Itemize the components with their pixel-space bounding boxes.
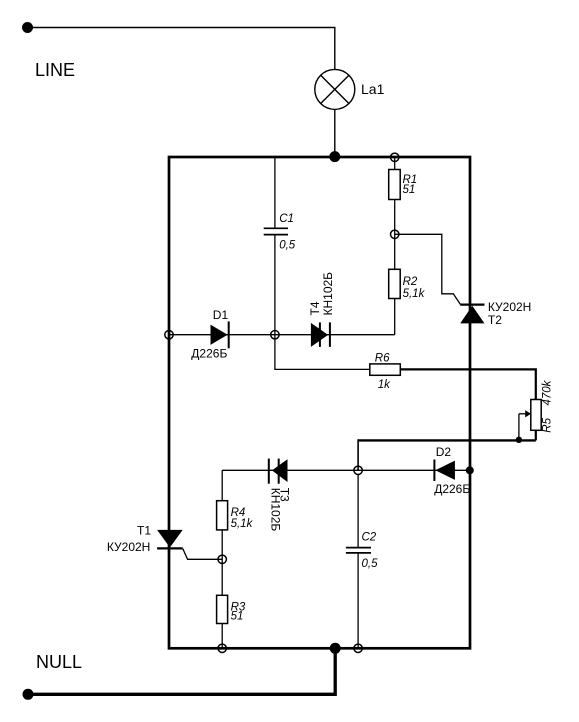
capacitor C1 xyxy=(264,228,288,234)
wire R1 to node xyxy=(394,200,396,235)
wire corner down to C2 node xyxy=(357,439,359,470)
wire R6 to R5 top xyxy=(400,369,536,399)
junction dot wiper xyxy=(516,437,522,443)
wire lamp to box top xyxy=(334,109,336,157)
terminal LINE dot xyxy=(22,22,33,33)
terminal NULL dot xyxy=(23,689,34,700)
svg-text:5,1k: 5,1k xyxy=(403,288,426,300)
node junction R1/R2/gate xyxy=(391,230,399,238)
lamp La1 xyxy=(315,69,355,109)
wire R4 to R3 xyxy=(221,530,223,595)
wire C1 top xyxy=(274,157,276,228)
svg-text:T1: T1 xyxy=(137,524,151,538)
resistor R1 xyxy=(389,170,401,200)
label R3 51 xyxy=(231,601,246,622)
svg-text:C2: C2 xyxy=(362,531,377,543)
dinistor T3 xyxy=(268,459,288,484)
svg-text:Д226Б: Д226Б xyxy=(191,346,227,360)
svg-text:LINE: LINE xyxy=(35,60,75,80)
wire C1 bottom to mid rail xyxy=(274,235,276,335)
capacitor C2 xyxy=(346,548,371,553)
label R1 51 xyxy=(403,174,418,196)
wire junction down to R6 xyxy=(275,335,370,370)
wire thick bottom rail to R5 xyxy=(358,439,536,441)
wire T3 rail xyxy=(222,469,358,471)
svg-text:1k: 1k xyxy=(378,379,391,391)
svg-text:0,5: 0,5 xyxy=(362,558,379,570)
svg-text:R2: R2 xyxy=(403,276,418,288)
box outline xyxy=(169,157,470,648)
node junction C1/D1/T4 xyxy=(271,331,279,339)
svg-text:КН102Б: КН102Б xyxy=(269,488,283,532)
wire C2 lower xyxy=(357,553,359,648)
wiper R5 xyxy=(519,410,531,440)
resistor R6 xyxy=(370,364,401,375)
potentiometer R5 xyxy=(531,400,541,431)
node junction R3 bottom edge xyxy=(218,644,226,652)
wire T2 gate xyxy=(395,234,461,304)
svg-text:T4: T4 xyxy=(308,301,322,315)
node junction R1 top edge xyxy=(391,153,399,161)
resistor R4 xyxy=(217,501,228,530)
wire T3 corner down to R4 xyxy=(221,470,223,500)
wire R2 bottom to mid rail xyxy=(394,299,396,335)
svg-text:NULL: NULL xyxy=(36,652,82,672)
svg-text:КУ202Н: КУ202Н xyxy=(107,540,150,554)
wire mid rail D1 T4 xyxy=(169,334,395,336)
svg-text:КН102Б: КН102Б xyxy=(321,272,335,316)
svg-text:La1: La1 xyxy=(361,81,385,97)
label R2 5,1k xyxy=(403,276,426,300)
resistor R3 xyxy=(217,595,228,623)
thyristor T1 xyxy=(157,530,183,549)
svg-text:51: 51 xyxy=(231,611,244,623)
svg-text:R5: R5 xyxy=(542,417,554,432)
svg-text:470k: 470k xyxy=(542,379,554,405)
thyristor T2 xyxy=(460,305,484,324)
dinistor T4 xyxy=(311,322,331,347)
diode D1 xyxy=(211,321,230,348)
junction dot NULL bottom edge xyxy=(330,643,341,654)
wire R3 bottom xyxy=(221,624,223,649)
wire T1 gate xyxy=(183,549,223,560)
svg-text:КУ202Н: КУ202Н xyxy=(488,300,531,314)
wire D2 rail xyxy=(358,469,470,471)
wire R1 top xyxy=(394,157,396,169)
svg-text:Д226Б: Д226Б xyxy=(434,482,470,496)
wire NULL xyxy=(28,648,335,694)
node junction C2 bottom edge xyxy=(354,644,362,652)
wire node to R2 xyxy=(394,234,396,269)
junction dot lamp/top edge xyxy=(329,151,340,162)
svg-text:D2: D2 xyxy=(436,445,452,459)
label R4 5,1k xyxy=(231,507,254,530)
svg-text:R6: R6 xyxy=(375,352,390,364)
svg-text:5,1k: 5,1k xyxy=(231,518,254,530)
svg-text:0,5: 0,5 xyxy=(279,239,296,251)
svg-text:C1: C1 xyxy=(279,213,294,225)
node junction mid rail left edge xyxy=(165,331,173,339)
diode D2 xyxy=(433,460,455,482)
resistor R2 xyxy=(389,269,401,298)
svg-text:T2: T2 xyxy=(488,313,502,327)
junction dot D2 right edge xyxy=(466,466,474,474)
node junction C2 top xyxy=(354,466,362,474)
svg-text:51: 51 xyxy=(403,184,416,196)
node junction gate T1 xyxy=(218,555,226,563)
wire C2 upper xyxy=(357,474,359,547)
wire LINE to lamp xyxy=(28,28,335,70)
svg-text:D1: D1 xyxy=(213,308,229,322)
wire R5 bottom xyxy=(535,430,537,440)
